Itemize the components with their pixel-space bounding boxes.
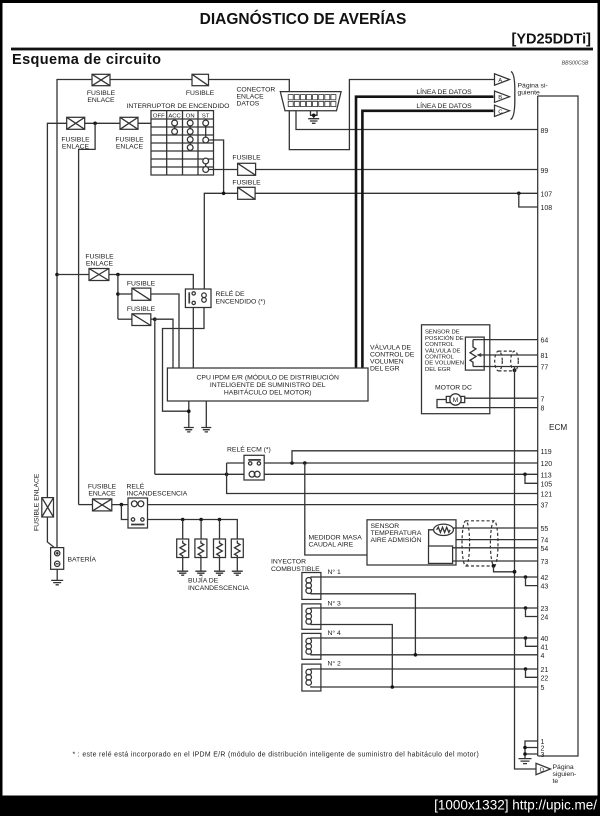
- svg-text:BUJÍA DE: BUJÍA DE: [188, 576, 219, 585]
- junction glow 1: [181, 518, 185, 522]
- svg-text:CONTROL: CONTROL: [425, 355, 455, 361]
- wire: junction up to contact: [226, 463, 228, 474]
- wire: ECM relay coil wire to ECM 113: [155, 473, 538, 475]
- wire: F/L3 to relay contact: [109, 275, 193, 290]
- wire: to ECM 54: [453, 547, 538, 549]
- svg-text:119: 119: [541, 449, 552, 456]
- svg-text:89: 89: [541, 128, 549, 135]
- wire: row2 fuse links to ignition switch: [85, 122, 151, 124]
- svg-text:CONTROL: CONTROL: [425, 342, 455, 348]
- svg-text:40: 40: [541, 636, 549, 643]
- svg-text:22: 22: [541, 675, 549, 682]
- junction pin5: [391, 685, 395, 689]
- svg-text:7: 7: [541, 396, 545, 403]
- svg-text:M: M: [453, 397, 459, 404]
- wire: IPDM ground pin 2: [205, 401, 207, 427]
- ECM box outline: [538, 96, 578, 756]
- junction shield drain EGR: [513, 368, 517, 372]
- shield (EGR wires, dashed): [495, 351, 519, 371]
- svg-text:VOLUMEN: VOLUMEN: [370, 359, 404, 366]
- ground (IPDM 1): [184, 428, 194, 432]
- injector no1: [302, 573, 321, 600]
- label rele incandescencia: [127, 482, 188, 498]
- ground (battery): [51, 580, 63, 584]
- arrow B pagina siguiente: [495, 91, 510, 102]
- svg-text:FUSIBLE ENLACE: FUSIBLE ENLACE: [34, 473, 41, 531]
- wire: ST start row to fuse2 node: [209, 140, 224, 193]
- svg-text:3: 3: [541, 752, 545, 759]
- svg-text:ON: ON: [186, 113, 195, 119]
- svg-text:CONTROL DE: CONTROL DE: [370, 352, 415, 359]
- wire: junction C down to ECM relay row: [154, 319, 156, 474]
- fusible F1 (to ECM 99): [232, 155, 261, 176]
- svg-text:[1000x1332] http://upic.me/: [1000x1332] http://upic.me/: [434, 798, 597, 813]
- svg-text:DEL EGR: DEL EGR: [370, 366, 400, 373]
- svg-text:MOTOR DC: MOTOR DC: [435, 385, 472, 392]
- svg-text:POSICIÓN DE: POSICIÓN DE: [425, 335, 464, 342]
- svg-text:INTELIGENTE DE SUMINISTRO DEL: INTELIGENTE DE SUMINISTRO DEL: [210, 382, 326, 389]
- wire: battery bus to F/L3: [57, 274, 89, 276]
- svg-text:FUSIBLE: FUSIBLE: [61, 137, 90, 144]
- wire: inj3 low to pin5 node: [321, 625, 392, 688]
- svg-text:MEDIDOR MASA: MEDIDOR MASA: [309, 535, 363, 542]
- svg-text:guiente: guiente: [518, 90, 541, 97]
- ground (glow plug 1): [177, 571, 188, 575]
- wire: junction C to IPDM top: [155, 319, 173, 368]
- svg-text:121: 121: [541, 492, 553, 499]
- data link connector: [280, 92, 341, 111]
- wire: ignition ST to fuse2 and relay coil feed: [204, 193, 237, 289]
- wire: glow plugs to ground: [183, 558, 238, 571]
- wire: EGR pot to ECM 64: [484, 339, 538, 341]
- arrow C pagina siguiente: [495, 105, 510, 116]
- svg-text:* : este relé está incorporado: * : este relé está incorporado en el IPD…: [73, 752, 480, 759]
- svg-text:FUSIBLE: FUSIBLE: [127, 281, 156, 288]
- wire: MAF shield drain: [494, 566, 515, 572]
- junction pin22: [524, 667, 528, 671]
- svg-text:INCANDESCENCIA: INCANDESCENCIA: [127, 491, 188, 498]
- arrow A pagina siguiente: [495, 74, 510, 85]
- wire: fuse F3 to IPDM top: [151, 294, 179, 368]
- wire: drop from junction to x78.6 bus: [79, 123, 96, 504]
- wire: branch to ECM 24: [526, 608, 538, 617]
- junction shield drain MAF: [492, 564, 496, 568]
- wire: EGR wiper to ECM 81: [484, 354, 538, 356]
- junction C fuse4 out: [153, 317, 157, 321]
- wire: branch to pin 108: [519, 193, 538, 207]
- injector no3: [302, 604, 321, 629]
- wire: battery bus x57 top row: [57, 80, 92, 548]
- wire: branch to ECM 43: [526, 577, 538, 586]
- fusible enlace F/L2b: [115, 117, 144, 150]
- svg-text:ST: ST: [202, 113, 210, 119]
- svg-text:41: 41: [541, 644, 549, 651]
- wire: fuse1 to ECM pin 99: [256, 169, 538, 171]
- svg-text:DE VOLUMEN: DE VOLUMEN: [425, 361, 464, 367]
- svg-text:73: 73: [541, 559, 549, 566]
- junction pin107/108: [517, 192, 521, 196]
- ground (connector): [308, 119, 319, 124]
- wire: fuse2 to ECM pin 107: [255, 192, 538, 194]
- wire: shield drain down to next page D: [515, 370, 537, 769]
- header rule: [11, 48, 593, 51]
- fusible enlace F/L3: [85, 254, 114, 281]
- wire: F/L4 to glow relay: [112, 504, 128, 506]
- wire: top row to connector detour and arrow A: [110, 80, 495, 150]
- CPU IPDM E/R box: [167, 368, 368, 401]
- wire: taps to glow plugs: [183, 520, 220, 540]
- wire: relay contact bottom to IPDM: [192, 308, 194, 369]
- junction battery bus / F-L3: [55, 273, 59, 277]
- junction row2: [93, 122, 97, 126]
- junction pin41: [524, 636, 528, 640]
- arrow D pagina siguiente: [536, 763, 551, 774]
- svg-text:CONECTOR: CONECTOR: [237, 87, 276, 94]
- wire: inj3 to ECM 23: [321, 607, 538, 609]
- wire: junction down to ECM 121: [227, 474, 538, 493]
- svg-text:N° 3: N° 3: [328, 599, 342, 607]
- svg-text:ECM: ECM: [549, 423, 567, 432]
- wire: motor to ECM 8: [437, 400, 538, 408]
- wire: connector ground pins: [311, 111, 318, 118]
- fusible enlace F/L2: [61, 117, 90, 150]
- svg-text:ENLACE: ENLACE: [237, 94, 265, 101]
- wire: connector pin to ECM 89: [296, 111, 538, 130]
- svg-text:107: 107: [541, 191, 553, 198]
- page frame top: [0, 0, 600, 3]
- svg-text:ENLACE: ENLACE: [86, 261, 114, 268]
- junction pin3 gnd: [523, 752, 527, 756]
- svg-text:SENSOR: SENSOR: [371, 523, 400, 530]
- svg-text:37: 37: [541, 503, 549, 510]
- label pagina siguiente (top): [518, 83, 548, 97]
- wire: glow plug bus: [148, 520, 238, 540]
- shield (MAF wires, dashed): [462, 521, 498, 566]
- svg-text:FUSIBLE: FUSIBLE: [85, 254, 114, 261]
- svg-text:RELÉ: RELÉ: [127, 482, 145, 491]
- svg-text:N° 1: N° 1: [328, 568, 342, 576]
- wire: ECM pins 1 2 3 to ground: [525, 741, 538, 758]
- svg-text:D: D: [540, 768, 544, 774]
- svg-text:CAUDAL AIRE: CAUDAL AIRE: [309, 542, 354, 549]
- label valvula de control de volumen del EGR: [370, 343, 415, 373]
- junction IPDM ground: [187, 409, 191, 413]
- ground (glow plug 3): [214, 571, 225, 575]
- svg-text:VÁLVULA DE: VÁLVULA DE: [425, 347, 461, 354]
- glow plug 1: [177, 539, 189, 558]
- MAF hybrid module: [429, 546, 453, 563]
- relay rele ECM: [244, 455, 264, 480]
- junction MAF feed branch: [303, 461, 307, 465]
- svg-text:64: 64: [541, 338, 549, 345]
- svg-text:OFF: OFF: [153, 113, 165, 119]
- svg-text:LÍNEA DE DATOS: LÍNEA DE DATOS: [416, 101, 472, 110]
- page frame right: [598, 0, 600, 796]
- svg-text:4: 4: [541, 653, 545, 660]
- wire: branch to glow relay contact: [121, 505, 128, 520]
- injector no2: [302, 664, 321, 691]
- wire: branch to ECM 105: [525, 474, 538, 483]
- wire: branch to ECM 41: [526, 638, 538, 646]
- svg-text:74: 74: [541, 538, 549, 545]
- relay rele de encendido: [185, 289, 265, 308]
- junction pin43: [524, 575, 528, 579]
- junction A: [116, 273, 120, 277]
- relay rele incandescencia: [128, 498, 148, 528]
- wire: glow relay coil to ECM 37: [148, 504, 538, 506]
- svg-text:5: 5: [541, 685, 545, 692]
- svg-text:[YD25DDTi]: [YD25DDTi]: [512, 32, 592, 48]
- svg-text:ACC: ACC: [168, 113, 181, 119]
- wire: IPDM ground pin 1: [188, 401, 190, 427]
- svg-text:VÁLVULA DE: VÁLVULA DE: [370, 343, 412, 352]
- svg-text:COMBUSTIBLE: COMBUSTIBLE: [271, 566, 320, 573]
- svg-text:RELÉ DE: RELÉ DE: [216, 289, 246, 298]
- svg-text:8: 8: [541, 406, 545, 413]
- svg-text:Página si-: Página si-: [518, 83, 548, 90]
- junction B: [116, 292, 120, 296]
- junction glow relay feed: [120, 503, 124, 507]
- label fusible enlace F/L4: [88, 484, 117, 498]
- svg-text:77: 77: [541, 365, 549, 372]
- fusible F3 (IPDM feed): [127, 281, 156, 301]
- svg-text:105: 105: [541, 481, 553, 488]
- svg-text:siguien-: siguien-: [553, 771, 577, 778]
- svg-text:DIAGNÓSTICO DE AVERÍAS: DIAGNÓSTICO DE AVERÍAS: [200, 10, 407, 28]
- svg-text:55: 55: [541, 526, 549, 533]
- wire: junction A down: [117, 275, 119, 320]
- svg-text:113: 113: [541, 472, 552, 479]
- svg-text:INTERRUPTOR DE ENCENDIDO: INTERRUPTOR DE ENCENDIDO: [127, 103, 230, 110]
- svg-text:FUSIBLE: FUSIBLE: [88, 484, 117, 491]
- glow plug 2: [195, 539, 207, 558]
- label sensor temperatura aire admision: [371, 523, 422, 544]
- svg-text:INYECTOR: INYECTOR: [271, 559, 306, 566]
- fusible enlace F/L4: [93, 499, 112, 511]
- page frame left: [0, 0, 3, 796]
- wire: thermistor link: [429, 530, 434, 546]
- fusible enlace vertical (battery): [42, 498, 54, 517]
- svg-text:FUSIBLE: FUSIBLE: [232, 180, 261, 187]
- ground (glow plug 4): [232, 571, 243, 575]
- junction glow 2: [199, 518, 203, 522]
- glow plug 3: [214, 539, 226, 558]
- wire: fuse to battery: [47, 517, 55, 549]
- svg-text:ENLACE: ENLACE: [88, 491, 116, 498]
- wire: MAF feed: [305, 463, 367, 555]
- svg-text:SENSOR DE: SENSOR DE: [425, 330, 460, 336]
- wire: ST bottom to fuse1: [209, 169, 238, 171]
- junction shield drain on D line: [513, 570, 517, 574]
- ground (IPDM 2): [201, 428, 211, 432]
- label inyector combustible: [271, 559, 320, 573]
- fusible F4 (IPDM feed 2): [127, 306, 156, 326]
- fusible (top row fuse): [186, 74, 215, 97]
- svg-text:81: 81: [541, 353, 549, 360]
- fusible F2 (to ECM 107/108): [232, 180, 261, 200]
- wire: to fuse F3: [118, 293, 132, 295]
- svg-text:RELÉ ECM (*): RELÉ ECM (*): [227, 445, 271, 454]
- wire: inj4 to ECM 40: [321, 637, 538, 639]
- svg-text:HABITÁCULO DEL MOTOR): HABITÁCULO DEL MOTOR): [224, 388, 312, 397]
- junction pin4: [414, 653, 418, 657]
- svg-text:B: B: [498, 95, 502, 101]
- wire: battery to ground: [56, 569, 58, 580]
- data line C (thick): [362, 111, 493, 368]
- wire: shield stub: [514, 367, 516, 371]
- pin labels ECM: [541, 128, 553, 759]
- battery: [51, 548, 97, 570]
- wire: to fuse F4: [118, 318, 132, 320]
- svg-text:CPU IPDM E/R (MÓDULO DE DISTRI: CPU IPDM E/R (MÓDULO DE DISTRIBUCIÓN: [197, 373, 339, 382]
- svg-text:FUSIBLE: FUSIBLE: [232, 155, 261, 162]
- svg-text:54: 54: [541, 546, 549, 553]
- svg-text:DATOS: DATOS: [237, 101, 260, 108]
- svg-text:ENCENDIDO (*): ENCENDIDO (*): [216, 299, 266, 306]
- junction pin105 branch: [523, 473, 527, 477]
- junction connector ground: [312, 114, 316, 118]
- data line B (thick): [356, 97, 494, 368]
- svg-text:108: 108: [541, 205, 553, 212]
- wire: EGR pot low to ECM 77: [484, 366, 538, 368]
- bracket pagina siguiente: [511, 72, 515, 120]
- svg-text:24: 24: [541, 615, 549, 622]
- junction pin119 branch: [290, 461, 294, 465]
- svg-text:ENLACE: ENLACE: [87, 97, 115, 104]
- wire: branch to ECM 119: [292, 451, 538, 463]
- svg-text:BATERÍA: BATERÍA: [68, 555, 97, 564]
- label bujia de incandescencia: [188, 576, 249, 593]
- svg-text:INCANDESCENCIA: INCANDESCENCIA: [188, 585, 249, 592]
- svg-text:42: 42: [541, 575, 549, 582]
- wire: to ECM 55: [453, 527, 537, 529]
- wire: ECM relay contact wire to ECM 120: [227, 462, 538, 464]
- label medidor masa caudal aire: [309, 535, 363, 549]
- wire: inj1 to ECM 42: [321, 576, 538, 578]
- svg-text:FUSIBLE: FUSIBLE: [115, 137, 144, 144]
- svg-text:N° 2: N° 2: [328, 660, 342, 668]
- junction rele ECM feed: [225, 473, 229, 477]
- ignition contacts ST column: [203, 120, 209, 172]
- svg-text:N° 4: N° 4: [328, 629, 342, 637]
- svg-text:Página: Página: [553, 764, 574, 771]
- svg-text:43: 43: [541, 584, 549, 591]
- svg-text:C: C: [498, 109, 503, 115]
- svg-text:AIRE ADMISIÓN: AIRE ADMISIÓN: [371, 535, 422, 544]
- junction pin24: [524, 606, 528, 610]
- wire: bus to F/L4: [79, 504, 93, 506]
- svg-text:BBS00CSB: BBS00CSB: [562, 61, 589, 67]
- label pagina siguiente (bottom): [553, 764, 577, 785]
- svg-text:23: 23: [541, 606, 549, 613]
- wire: inj1 low to pin4 node: [321, 594, 416, 655]
- svg-text:DEL EGR: DEL EGR: [425, 367, 451, 373]
- svg-text:te: te: [553, 778, 559, 785]
- ground (glow plug 2): [195, 571, 206, 575]
- wire: inj2 low to ECM 5: [321, 686, 538, 688]
- EGR valve outer box: [422, 325, 490, 414]
- svg-text:FUSIBLE: FUSIBLE: [186, 90, 215, 97]
- svg-text:21: 21: [541, 667, 549, 674]
- svg-text:120: 120: [541, 461, 553, 468]
- motor DC M: [446, 394, 464, 405]
- ground (ECM 1-3): [519, 759, 532, 764]
- wire: motor to ECM 7: [465, 397, 538, 399]
- EGR position sensor potentiometer: [465, 337, 484, 370]
- junction glow 3: [218, 518, 222, 522]
- wire: to ECM 73: [453, 560, 538, 562]
- svg-text:99: 99: [541, 168, 549, 175]
- wire: relay coil bottom to IPDM ground node: [163, 308, 205, 412]
- wire: fuse F4 out: [151, 318, 155, 320]
- wire: inj4 low to ECM 4: [321, 654, 538, 656]
- svg-text:LÍNEA DE DATOS: LÍNEA DE DATOS: [416, 87, 472, 96]
- fusible enlace F/L1 (top row): [87, 74, 116, 104]
- svg-text:TEMPERATURA: TEMPERATURA: [371, 530, 422, 537]
- svg-text:Esquema de circuito: Esquema de circuito: [12, 52, 161, 68]
- ignition contacts ON column: [187, 120, 193, 150]
- watermark bar: [0, 796, 600, 816]
- junction pin2 gnd: [523, 746, 527, 750]
- svg-text:FUSIBLE: FUSIBLE: [87, 90, 116, 97]
- wire: row2 left feed x47.4: [47, 123, 66, 497]
- wire: to ECM 74: [456, 539, 538, 541]
- junction fuse2 node: [222, 192, 226, 196]
- MAF sensor box: [367, 520, 456, 565]
- svg-text:FUSIBLE: FUSIBLE: [127, 306, 156, 313]
- air temp thermistor: [434, 524, 454, 535]
- label conector enlace datos: [237, 87, 276, 108]
- wire: branch to ECM 22: [526, 669, 538, 677]
- ignition switch table: [151, 111, 214, 175]
- injector no4: [302, 633, 321, 659]
- wire: inj2 to ECM 21: [321, 668, 538, 670]
- glow plug 4: [231, 539, 243, 558]
- svg-text:A: A: [498, 78, 502, 84]
- svg-text:ENLACE: ENLACE: [116, 144, 144, 151]
- label sensor de posicion EGR: [425, 330, 464, 373]
- ignition contacts ACC column: [172, 120, 178, 134]
